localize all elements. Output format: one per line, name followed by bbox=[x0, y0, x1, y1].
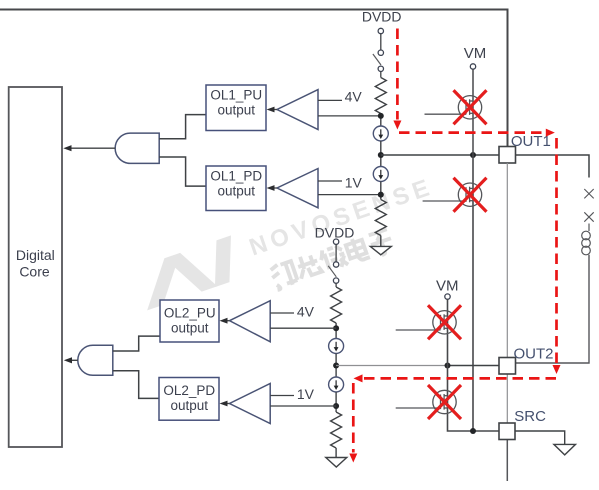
svg-text:Digital: Digital bbox=[16, 247, 55, 263]
svg-text:VM: VM bbox=[436, 278, 459, 295]
wire OUT1 to load bbox=[516, 155, 590, 178]
wire node to OUT2 pad bbox=[336, 365, 447, 367]
wire CMP3 output arrow bbox=[223, 320, 230, 322]
svg-text:output: output bbox=[218, 183, 256, 198]
wire VM2 chain bbox=[448, 299, 500, 431]
OL1_PD output box bbox=[206, 166, 266, 211]
Q1 disabled red X bbox=[454, 90, 487, 124]
terminal VM2 bbox=[445, 294, 450, 299]
open connection mark x2 bbox=[584, 212, 593, 221]
wire bbox=[335, 354, 337, 378]
node R1/CMP1 junction bbox=[378, 113, 384, 119]
vertical pad chain wire bbox=[506, 163, 508, 358]
svg-text:SRC: SRC bbox=[514, 408, 546, 425]
OL1_PU output box bbox=[206, 85, 266, 131]
SRC pad bbox=[499, 423, 515, 440]
wire CMP2 output arrow bbox=[270, 187, 277, 189]
resistor R1 bbox=[375, 78, 386, 114]
transistor Q2 bbox=[423, 183, 482, 206]
svg-text:OL2_PU: OL2_PU bbox=[164, 306, 216, 321]
resistor R4 bbox=[331, 412, 342, 448]
top border supply wire bbox=[0, 10, 508, 148]
svg-text:OL2_PD: OL2_PD bbox=[163, 383, 215, 398]
wire bbox=[380, 141, 382, 167]
terminal VM1 bbox=[470, 64, 475, 69]
svg-text:output: output bbox=[218, 102, 256, 117]
open connection mark x1 bbox=[584, 189, 593, 198]
node VM1 chain junction bbox=[470, 152, 476, 158]
svg-text:output: output bbox=[171, 321, 209, 336]
wire VM1 chain bbox=[472, 69, 474, 155]
node R2/CMP2 junction bbox=[378, 192, 384, 198]
wire U1 output to Digital Core bbox=[67, 147, 115, 149]
node VM2 chain junction bbox=[445, 363, 451, 369]
switch SW1 bbox=[378, 50, 383, 55]
node OUT1 tap bbox=[378, 152, 384, 158]
svg-text:1V: 1V bbox=[345, 174, 363, 190]
svg-text:output: output bbox=[171, 398, 209, 413]
OUT2 pad bbox=[499, 358, 516, 375]
comparator CMP4 (1V) bbox=[230, 384, 271, 424]
AND gate U1 bbox=[115, 133, 159, 163]
terminal DVDD2 bbox=[333, 239, 338, 244]
node R4/CMP4 junction bbox=[333, 403, 339, 409]
transistor Q3 bbox=[396, 311, 456, 334]
wire U1 input A from OL1_PU bbox=[159, 115, 206, 139]
wire CMP4 plus input 1V bbox=[270, 395, 294, 397]
comparator CMP3 (4V) bbox=[230, 301, 271, 342]
wire bbox=[335, 244, 337, 261]
node R3/CMP3 junction bbox=[333, 325, 339, 331]
current source I1 bbox=[373, 126, 388, 141]
svg-text:VM: VM bbox=[464, 45, 487, 62]
current source I2 bbox=[373, 167, 388, 182]
wire CMP1 plus input 4V bbox=[318, 99, 342, 101]
wire U2 input A from OL2_PU bbox=[113, 336, 160, 351]
switch SW2 bbox=[333, 262, 338, 267]
wire bbox=[380, 34, 382, 50]
svg-text:DVDD: DVDD bbox=[362, 9, 402, 25]
wire U2 input B from OL2_PD bbox=[113, 371, 159, 399]
Q3 disabled red X bbox=[428, 305, 461, 339]
node SRC wire junction bbox=[470, 428, 476, 434]
resistor R3 bbox=[331, 287, 342, 323]
terminal DVDD1 bbox=[378, 28, 383, 33]
wire CMP3 minus input bbox=[270, 327, 336, 329]
current source I4 bbox=[329, 377, 344, 392]
OL2_PD output box bbox=[159, 378, 219, 421]
wire CMP1 output arrow bbox=[270, 109, 277, 111]
node OUT2 tap bbox=[333, 363, 339, 369]
wire CMP3 plus input 4V bbox=[270, 312, 294, 314]
Digital Core block bbox=[9, 87, 62, 447]
svg-text:OUT1: OUT1 bbox=[511, 133, 551, 150]
AND gate U2 bbox=[78, 345, 113, 375]
wire bbox=[380, 72, 382, 78]
svg-text:4V: 4V bbox=[297, 304, 315, 320]
red current path down to ground bbox=[352, 383, 355, 453]
svg-text:OL1_PU: OL1_PU bbox=[210, 87, 262, 102]
wire CMP2 plus input 1V bbox=[318, 180, 342, 182]
current source I3 bbox=[329, 339, 344, 354]
wire U1 input B from OL1_PD bbox=[159, 157, 206, 186]
wire bbox=[335, 392, 337, 412]
watermark NOVOSENSE logo and text bbox=[133, 168, 448, 333]
wire bbox=[380, 236, 382, 247]
OUT1 pad bbox=[499, 147, 516, 164]
wire CMP2 minus input bbox=[318, 194, 381, 196]
comparator CMP1 (4V) bbox=[277, 90, 318, 130]
transistor Q1 bbox=[425, 96, 482, 119]
red current path down right side bbox=[555, 138, 558, 364]
svg-text:1V: 1V bbox=[297, 386, 315, 402]
wire CMP1 minus input bbox=[318, 115, 381, 117]
wire bbox=[380, 182, 382, 200]
wire load return to OUT2 bbox=[516, 255, 590, 363]
ground GND3 bbox=[554, 444, 576, 455]
wire CMP4 output arrow bbox=[223, 403, 230, 405]
svg-text:4V: 4V bbox=[345, 88, 363, 104]
svg-text:OL1_PD: OL1_PD bbox=[210, 168, 262, 183]
wire bbox=[335, 283, 337, 287]
wire bbox=[380, 114, 382, 127]
OL2_PU output box bbox=[160, 300, 219, 342]
red current path from DVDD down bbox=[396, 29, 399, 120]
wire U2 output to Digital Core bbox=[68, 359, 78, 361]
resistor R2 bbox=[375, 200, 386, 236]
Q4 disabled red X bbox=[428, 385, 461, 419]
chinese watermark row bbox=[269, 227, 395, 291]
wire SRC to ground bbox=[515, 431, 565, 444]
wire CMP4 minus input bbox=[270, 405, 336, 407]
Q2 disabled red X bbox=[454, 178, 487, 212]
comparator CMP2 (1V) bbox=[277, 169, 318, 208]
red current path to OUT1 bbox=[399, 131, 545, 134]
wire bbox=[335, 323, 337, 339]
wire node to OUT1 pad bbox=[381, 154, 499, 156]
logo mark bbox=[133, 235, 245, 310]
wire bbox=[335, 448, 337, 458]
svg-text:DVDD: DVDD bbox=[315, 224, 355, 240]
red current path leftwards under OUT2 bbox=[364, 377, 556, 380]
ground GND1 bbox=[370, 246, 391, 254]
wire stub bbox=[588, 224, 590, 232]
ground GND2 bbox=[326, 458, 347, 468]
transistor Q4 bbox=[396, 390, 456, 413]
svg-text:OUT2: OUT2 bbox=[514, 345, 554, 362]
svg-text:Core: Core bbox=[19, 264, 50, 280]
inductor L1 load bbox=[582, 231, 591, 255]
